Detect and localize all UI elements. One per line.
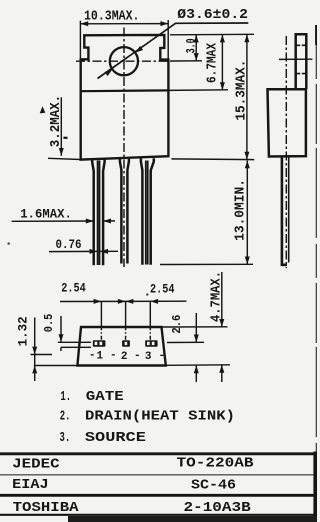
svg-text:DRAIN(HEAT SINK): DRAIN(HEAT SINK): [85, 410, 235, 425]
dim 10.3MAX arrows: [80, 21, 88, 26]
table bottom border: [0, 514, 317, 516]
svg-text:1.: 1.: [60, 390, 71, 405]
dim 1.6MAX line: [12, 220, 94, 222]
pin 2 bottom view: [122, 340, 130, 347]
bottom view trapezoid: [77, 327, 165, 366]
svg-text:2.6: 2.6: [170, 315, 184, 334]
side view body: [268, 89, 306, 156]
side view hole center horizontal line: [279, 58, 313, 60]
svg-text:JEDEC: JEDEC: [12, 458, 60, 473]
1.32 extension line: [31, 354, 53, 356]
package body outline front view: [81, 35, 169, 160]
pin extension lines up: [100, 302, 102, 328]
scan right edge line: [315, 45, 317, 452]
diameter leader line: [98, 23, 249, 79]
svg-text:-: -: [134, 350, 141, 362]
dim 0.5 leader with arrows: [60, 316, 62, 342]
dim 3.2MAX line: [60, 97, 62, 153]
svg-text:1.6MAX.: 1.6MAX.: [20, 207, 72, 222]
svg-text:2.: 2.: [60, 410, 71, 425]
dim 4.7MAX leader: [221, 272, 223, 327]
side view hole hidden lines: [297, 44, 306, 46]
lead 2 (middle) front: [120, 159, 122, 264]
lead 1 (left) front: [92, 159, 94, 265]
top edge extension right: [162, 326, 228, 328]
dim 2.54 line: [60, 300, 187, 302]
dim 2.6 leader: [195, 313, 197, 342]
floating up arrow of 3.2MAX: [40, 106, 46, 113]
svg-text:2.54: 2.54: [150, 281, 175, 296]
svg-text:3.2MAX.: 3.2MAX.: [48, 95, 64, 148]
scan speck near 0.76: [7, 242, 10, 245]
body bottom extension right (y=159.5): [171, 158, 254, 161]
diameter leader arrows: [105, 69, 113, 76]
svg-text:TO-220AB: TO-220AB: [177, 456, 254, 471]
bottom edge extensions: [34, 365, 78, 367]
tab/body line extension right (6.7MAX): [168, 89, 228, 92]
mounting hole: [110, 47, 138, 75]
svg-text:Ø3.6±0.2: Ø3.6±0.2: [177, 8, 248, 23]
dim 3.0 line: [195, 35, 197, 61]
side view centerline: [285, 36, 287, 268]
table divider 2: [0, 494, 317, 497]
svg-text:GATE: GATE: [86, 390, 124, 405]
dim 0.5: pin edge extension lines: [58, 341, 91, 343]
dim 6.7MAX line: [221, 35, 223, 91]
svg-text:-: -: [89, 350, 96, 362]
hole horizontal centerline: [76, 60, 171, 62]
svg-text:4.7MAX.: 4.7MAX.: [210, 271, 225, 322]
table right border scan band: [313, 452, 317, 522]
tab/body separation line: [81, 89, 168, 92]
table divider 1: [0, 474, 317, 476]
pin 1 bottom view: [93, 340, 106, 347]
dim 10.3MAX dimension line: [80, 23, 168, 25]
dim 13.0MIN line: [246, 161, 248, 265]
dim 15.3MAX line: [246, 34, 248, 159]
svg-text:2: 2: [121, 351, 128, 363]
dim 10.3MAX extension lines: [79, 21, 81, 59]
pin 3 bottom view: [145, 340, 157, 347]
scan speck near right 2.54: [146, 293, 148, 295]
svg-text:15.3MAX.: 15.3MAX.: [234, 60, 249, 121]
svg-text:3.: 3.: [60, 431, 71, 446]
svg-text:2.54: 2.54: [61, 281, 86, 296]
svg-text:1.32: 1.32: [16, 316, 31, 346]
scan edge artifact top right: [315, 25, 317, 45]
svg-text:3: 3: [145, 351, 152, 363]
svg-text:10.3MAX.: 10.3MAX.: [84, 10, 140, 25]
svg-text:SOURCE: SOURCE: [85, 431, 146, 446]
vertical centerline: [123, 28, 125, 268]
svg-text:TOSHIBA: TOSHIBA: [13, 501, 80, 516]
lead 3 (right) front: [141, 159, 143, 265]
svg-text:13.0MIN.: 13.0MIN.: [234, 179, 249, 241]
svg-text:1: 1: [97, 350, 104, 362]
svg-text:-: -: [159, 350, 166, 362]
dim 0.76 line: [49, 250, 97, 252]
lead tips extension line (y=264.3): [160, 263, 253, 265]
scan smudge bottom: [68, 516, 317, 522]
svg-text:0.5: 0.5: [42, 314, 56, 333]
table top border: [0, 452, 317, 455]
svg-text:-: -: [110, 350, 117, 362]
svg-text:EIAJ: EIAJ: [12, 478, 49, 493]
top edge extension line right (y=34.5): [170, 33, 254, 36]
dim 1.32 leader: [34, 318, 36, 382]
side view tab: [296, 34, 307, 89]
side view lead: [282, 157, 287, 265]
svg-text:6.7MAX: 6.7MAX: [206, 42, 221, 83]
svg-text:2-10A3B: 2-10A3B: [184, 501, 251, 516]
small dash mark: [63, 137, 67, 139]
svg-text:0.76: 0.76: [56, 237, 82, 252]
svg-text:SC-46: SC-46: [191, 479, 236, 494]
body bottom extension left: [48, 158, 81, 159]
svg-text:3.0: 3.0: [184, 38, 198, 53]
dim 2.6: pin top extension right: [167, 341, 204, 343]
